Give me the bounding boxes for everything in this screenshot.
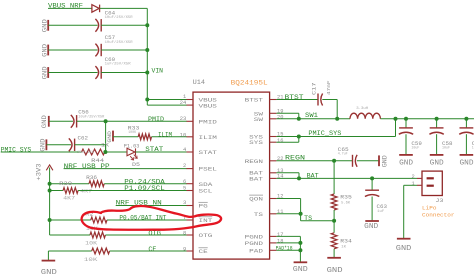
svg-text:GND: GND [460,160,474,168]
wire C65 to GND bar [357,160,379,162]
resistor R30 [63,188,78,194]
wire pin 21 BTST to C17 [276,99,318,101]
svg-text:ILIM: ILIM [158,132,172,139]
wire C59 to GND [405,134,407,154]
resistor R36 [89,181,104,187]
wire R35 to TS node [333,210,335,221]
wire J3 pin 1 to GND [404,184,417,186]
svg-text:24: 24 [180,100,186,106]
wire OTG resistor to pin 8 [105,234,186,236]
svg-text:VIN: VIN [152,67,164,74]
svg-text:Connector: Connector [422,211,455,218]
resistor R34 [333,221,335,233]
capacitor C58 [429,128,443,134]
svg-text:BAT: BAT [249,176,263,182]
wire GND to C62 [46,144,71,146]
junction PMID / LED branch [104,119,108,123]
svg-text:BQ24195L: BQ24195L [231,79,268,86]
junction TS node [332,219,336,223]
wire GND to C64 [48,24,97,26]
svg-text:GND: GND [42,44,49,57]
svg-text:GND: GND [364,223,378,231]
svg-text:BTST: BTST [285,94,304,101]
svg-text:1: 1 [412,181,415,187]
ground GND for R33 [112,131,114,142]
svg-text:SCL: SCL [199,189,213,195]
junction rail / C58 [435,117,439,121]
wire R36 to pin 6 SDA [104,183,187,185]
wire C17 to SW rail elbow [322,99,337,101]
svg-text:3: 3 [183,200,186,206]
svg-text:GND: GND [396,245,412,253]
svg-text:PMID: PMID [199,119,217,125]
svg-text:2: 2 [183,163,186,169]
resistor R44 [82,149,105,155]
wire pin 18 PGND [276,242,300,244]
ground GND for C60 [47,67,49,78]
ground GND below R34 [327,257,341,259]
junction BAT / C63 [370,176,374,180]
junction SYS tap [394,117,398,121]
resistor R35 [331,194,337,210]
svg-text:SDA: SDA [199,182,214,188]
ground GND for C56 [48,116,50,127]
capacitor C56 [71,115,77,128]
svg-text:5.6K: 5.6K [341,202,351,206]
wire NRF_USB_PP to pin 2 [64,168,187,170]
svg-text:10K: 10K [84,256,98,263]
svg-text:GND: GND [382,155,389,167]
wire rail to C59 [405,119,407,128]
svg-text:8: 8 [183,231,186,237]
wire rail to C58 [436,119,438,128]
capacitor C17 [318,94,323,106]
svg-text:9: 9 [183,247,186,253]
pin stubs left side U14 [187,99,194,101]
IC U14 BQ24195L [193,92,270,259]
supply +3V3 [46,165,53,170]
wire LED to pin 4 STAT [136,151,187,153]
svg-text:GND: GND [327,267,343,275]
junction STAT node [103,150,107,154]
junction C17 drop on rail [335,117,339,121]
svg-text:16: 16 [277,138,283,144]
diode D (VBUS_NRF to VIN) [92,5,100,13]
svg-text:10uF/25V/X5R: 10uF/25V/X5R [105,40,134,45]
capacitor C59 [399,128,413,134]
svg-text:5: 5 [183,185,186,191]
svg-text:SYS: SYS [249,140,263,146]
junction VIN rail / C57 [145,48,149,52]
wire GND to C57 [48,49,97,51]
wire BAT to C63 [371,178,373,190]
ground GND below C58 [430,154,444,156]
wire PAD row [276,249,300,251]
svg-text:GND: GND [293,266,308,274]
wire R30 to pin 5 SCL [78,190,187,192]
wire pin 12 QON join [276,198,300,200]
svg-text:1uF: 1uF [377,210,384,214]
svg-text:2: 2 [412,174,415,180]
ground GND below C55 [460,154,474,156]
wire R2 to pin 7 INT [107,219,187,221]
capacitor C55 [459,128,473,134]
capacitor C57 [95,44,101,57]
wire rail to C55 [465,119,467,128]
svg-text:4.7uF: 4.7uF [338,153,348,157]
svg-text:BAT: BAT [307,173,319,180]
wire pin 16 SYS join [276,141,298,143]
svg-text:20: 20 [277,114,283,120]
wire TS to divider node [300,214,302,221]
svg-text:R36: R36 [86,174,97,181]
wire C57 to VIN rail [101,49,147,51]
ground GND below J3 [397,238,411,240]
svg-text:47nF: 47nF [326,80,332,95]
wire C58 to GND [436,134,438,154]
wire GND to CE resistor [48,250,91,252]
pin stub J3 pin 1 [417,184,422,186]
junction rail / C59 [404,117,408,121]
junction BAT join [297,176,301,180]
svg-text:PAD: PAD [249,248,263,254]
pin stub J3 pin 2 [417,177,422,179]
wire pin 19 SW [276,112,298,114]
junction rail / C55 [464,117,468,121]
wire R33 to pin 10 ILIM [152,136,187,138]
pin stubs right side U14 [270,99,277,101]
ground GND below C59 [399,154,413,156]
wire PGND join vertical to GND [299,236,301,262]
svg-text:SW: SW [254,117,264,123]
wire pin 13 BAT join [276,172,299,174]
wire C55 to GND [465,134,467,154]
svg-text:U14: U14 [193,79,206,86]
capacitor C60 [95,66,101,79]
svg-text:P1.03: P1.03 [124,143,140,150]
connector J3 body [422,171,442,195]
junction PAD [298,248,302,252]
wire GND to C60 [48,72,97,74]
svg-text:TS: TS [304,215,312,222]
wire C56 to pin 23 PMID [77,120,187,122]
wire +3V3 to R36 [50,183,89,185]
wire GND to C56 [49,120,73,122]
ground GND for C64 [47,20,49,31]
svg-text:4K7: 4K7 [80,188,92,194]
wire VIN elbow to pin 24 [147,104,187,106]
svg-text:PSEL: PSEL [199,167,217,173]
svg-text:GND: GND [40,139,47,152]
wire C62 to STAT node [75,144,106,146]
wire PMID branch down to STAT node [105,121,107,152]
svg-text:OTG: OTG [199,233,213,239]
wire +3V3 to R30 [50,190,64,192]
svg-text:10uF/25V: 10uF/25V [77,150,95,155]
wire inductor to output rail [380,118,474,120]
inductor L1 [350,113,380,119]
capacitor C62 [69,138,75,151]
wire pin 15 SYS to rail tap [276,136,395,138]
svg-text:17: 17 [277,232,283,238]
svg-text:PMID: PMID [148,116,164,123]
wire +3V3 to R2 [50,219,91,221]
svg-text:C62: C62 [78,135,89,142]
LED D5 P1.03 [127,148,136,155]
resistor R on OTG row [90,232,105,238]
wire pin 11 TS [276,213,300,215]
svg-text:6: 6 [183,179,186,185]
capacitor C65 [353,155,358,167]
wire GND to R33 [113,136,138,138]
svg-text:PGND: PGND [245,234,263,240]
wire VBUS_NRF to diode anode [48,7,92,9]
svg-text:4K7: 4K7 [63,196,75,202]
svg-text:PAD*18: PAD*18 [276,245,293,252]
svg-text:PMIC_SYS: PMIC_SYS [308,130,341,137]
svg-text:STAT: STAT [199,150,217,156]
svg-text:GND: GND [42,66,49,79]
svg-text:CE: CE [148,246,156,253]
svg-text:GND: GND [41,115,48,128]
wire NRF_USB_NN to pin 3 [116,205,187,207]
svg-text:10uF: 10uF [442,146,450,150]
svg-text:GND: GND [430,160,444,168]
svg-text:P1.09/SCL: P1.09/SCL [124,185,165,192]
junction VIN rail / C60 / net VIN [145,71,149,75]
junction VIN rail / C64 [145,23,149,27]
ground GND below CE resistor [42,260,56,262]
resistor R2 [91,217,107,223]
svg-text:STAT: STAT [145,146,163,153]
svg-text:VBUS: VBUS [199,98,217,104]
svg-text:VBUS: VBUS [199,104,217,110]
ground GND for C62 [45,139,47,150]
wire pin 17 PGND [276,235,300,237]
svg-text:10: 10 [180,132,186,138]
svg-text:D5: D5 [132,161,140,168]
resistor R on CE row [92,248,110,254]
svg-text:SW1: SW1 [305,112,318,119]
wire CE resistor to pin 9 [110,250,187,252]
wire STAT node to LED anode [106,151,127,153]
svg-text:R34: R34 [340,238,352,245]
svg-text:10uF: 10uF [411,146,419,150]
svg-text:4: 4 [183,147,186,153]
svg-text:P0.05/BAT_INT: P0.05/BAT_INT [119,215,166,222]
wire pin 22 REGN to C65 [276,160,352,162]
svg-text:100K: 100K [128,131,137,135]
svg-text:REGN: REGN [245,159,263,165]
svg-text:10K: 10K [85,241,97,247]
ground GND below C63 [365,220,379,222]
svg-text:TS: TS [254,212,263,218]
wire VIN vertical rail [146,8,148,105]
svg-text:C17: C17 [311,83,317,96]
svg-text:CE: CE [199,249,208,255]
svg-text:GND: GND [41,269,57,277]
wire diode cathode to VIN rail [100,7,148,9]
svg-text:R30: R30 [59,180,73,187]
svg-text:OTG: OTG [148,230,161,237]
svg-text:QON: QON [249,196,263,202]
wire BAT row to J3 [276,177,417,179]
resistor R33 [138,134,151,140]
svg-text:18: 18 [277,238,283,244]
svg-text:PGND: PGND [245,241,263,247]
wire C63 to GND [371,197,373,221]
svg-text:R35: R35 [340,194,352,201]
svg-text:1uF/25V/X5R: 1uF/25V/X5R [105,62,132,67]
capacitor C64 [95,19,101,32]
svg-text:REGN: REGN [285,155,305,162]
junction +3V3 / SCL [48,189,52,193]
svg-text:BTST: BTST [245,98,263,104]
svg-text:GND: GND [399,160,413,168]
svg-text:+3V3: +3V3 [36,163,43,180]
annotation red loop around R2 / P0.05/BAT_INT / INT [82,206,221,230]
svg-text:10uF/25V/X5R: 10uF/25V/X5R [105,15,134,20]
svg-text:23: 23 [180,116,186,122]
junction VIN rail pin1 [145,98,149,102]
junction QON/TS join [299,212,303,216]
wire +3V3 vertical [49,168,51,236]
wire C64 to VIN rail [101,24,147,26]
wire R34 to GND [333,249,335,258]
wire +3V3 to OTG resistor [50,234,90,236]
junction SW join [297,117,301,121]
svg-text:3.3uH: 3.3uH [356,107,369,111]
junction PGND 18 [298,241,302,245]
wire C60 to VIN rail [101,72,147,74]
capacitor C63 [365,190,379,196]
junction SYS join [297,135,301,139]
ground GND for C65 [378,155,380,166]
wire pin 20 SW / SW1 rail to inductor [276,118,350,120]
svg-text:ILIM: ILIM [199,135,217,141]
ground GND below PGND [294,261,308,263]
junction +3V3 / SDA [48,182,52,186]
wire PMIC_SYS to R44 [1,151,82,153]
svg-text:GND: GND [42,19,49,32]
svg-text:J3: J3 [435,198,443,204]
wire VIN to pin 1 [147,99,187,101]
junction REGN / R35 branch [332,159,336,163]
svg-text:PG: PG [199,204,208,210]
svg-text:10uF/25V/X5R: 10uF/25V/X5R [78,114,105,119]
junction +3V3 / R2 [48,218,52,222]
ground GND for C57 [47,45,49,56]
wire REGN to R35 [333,161,335,194]
